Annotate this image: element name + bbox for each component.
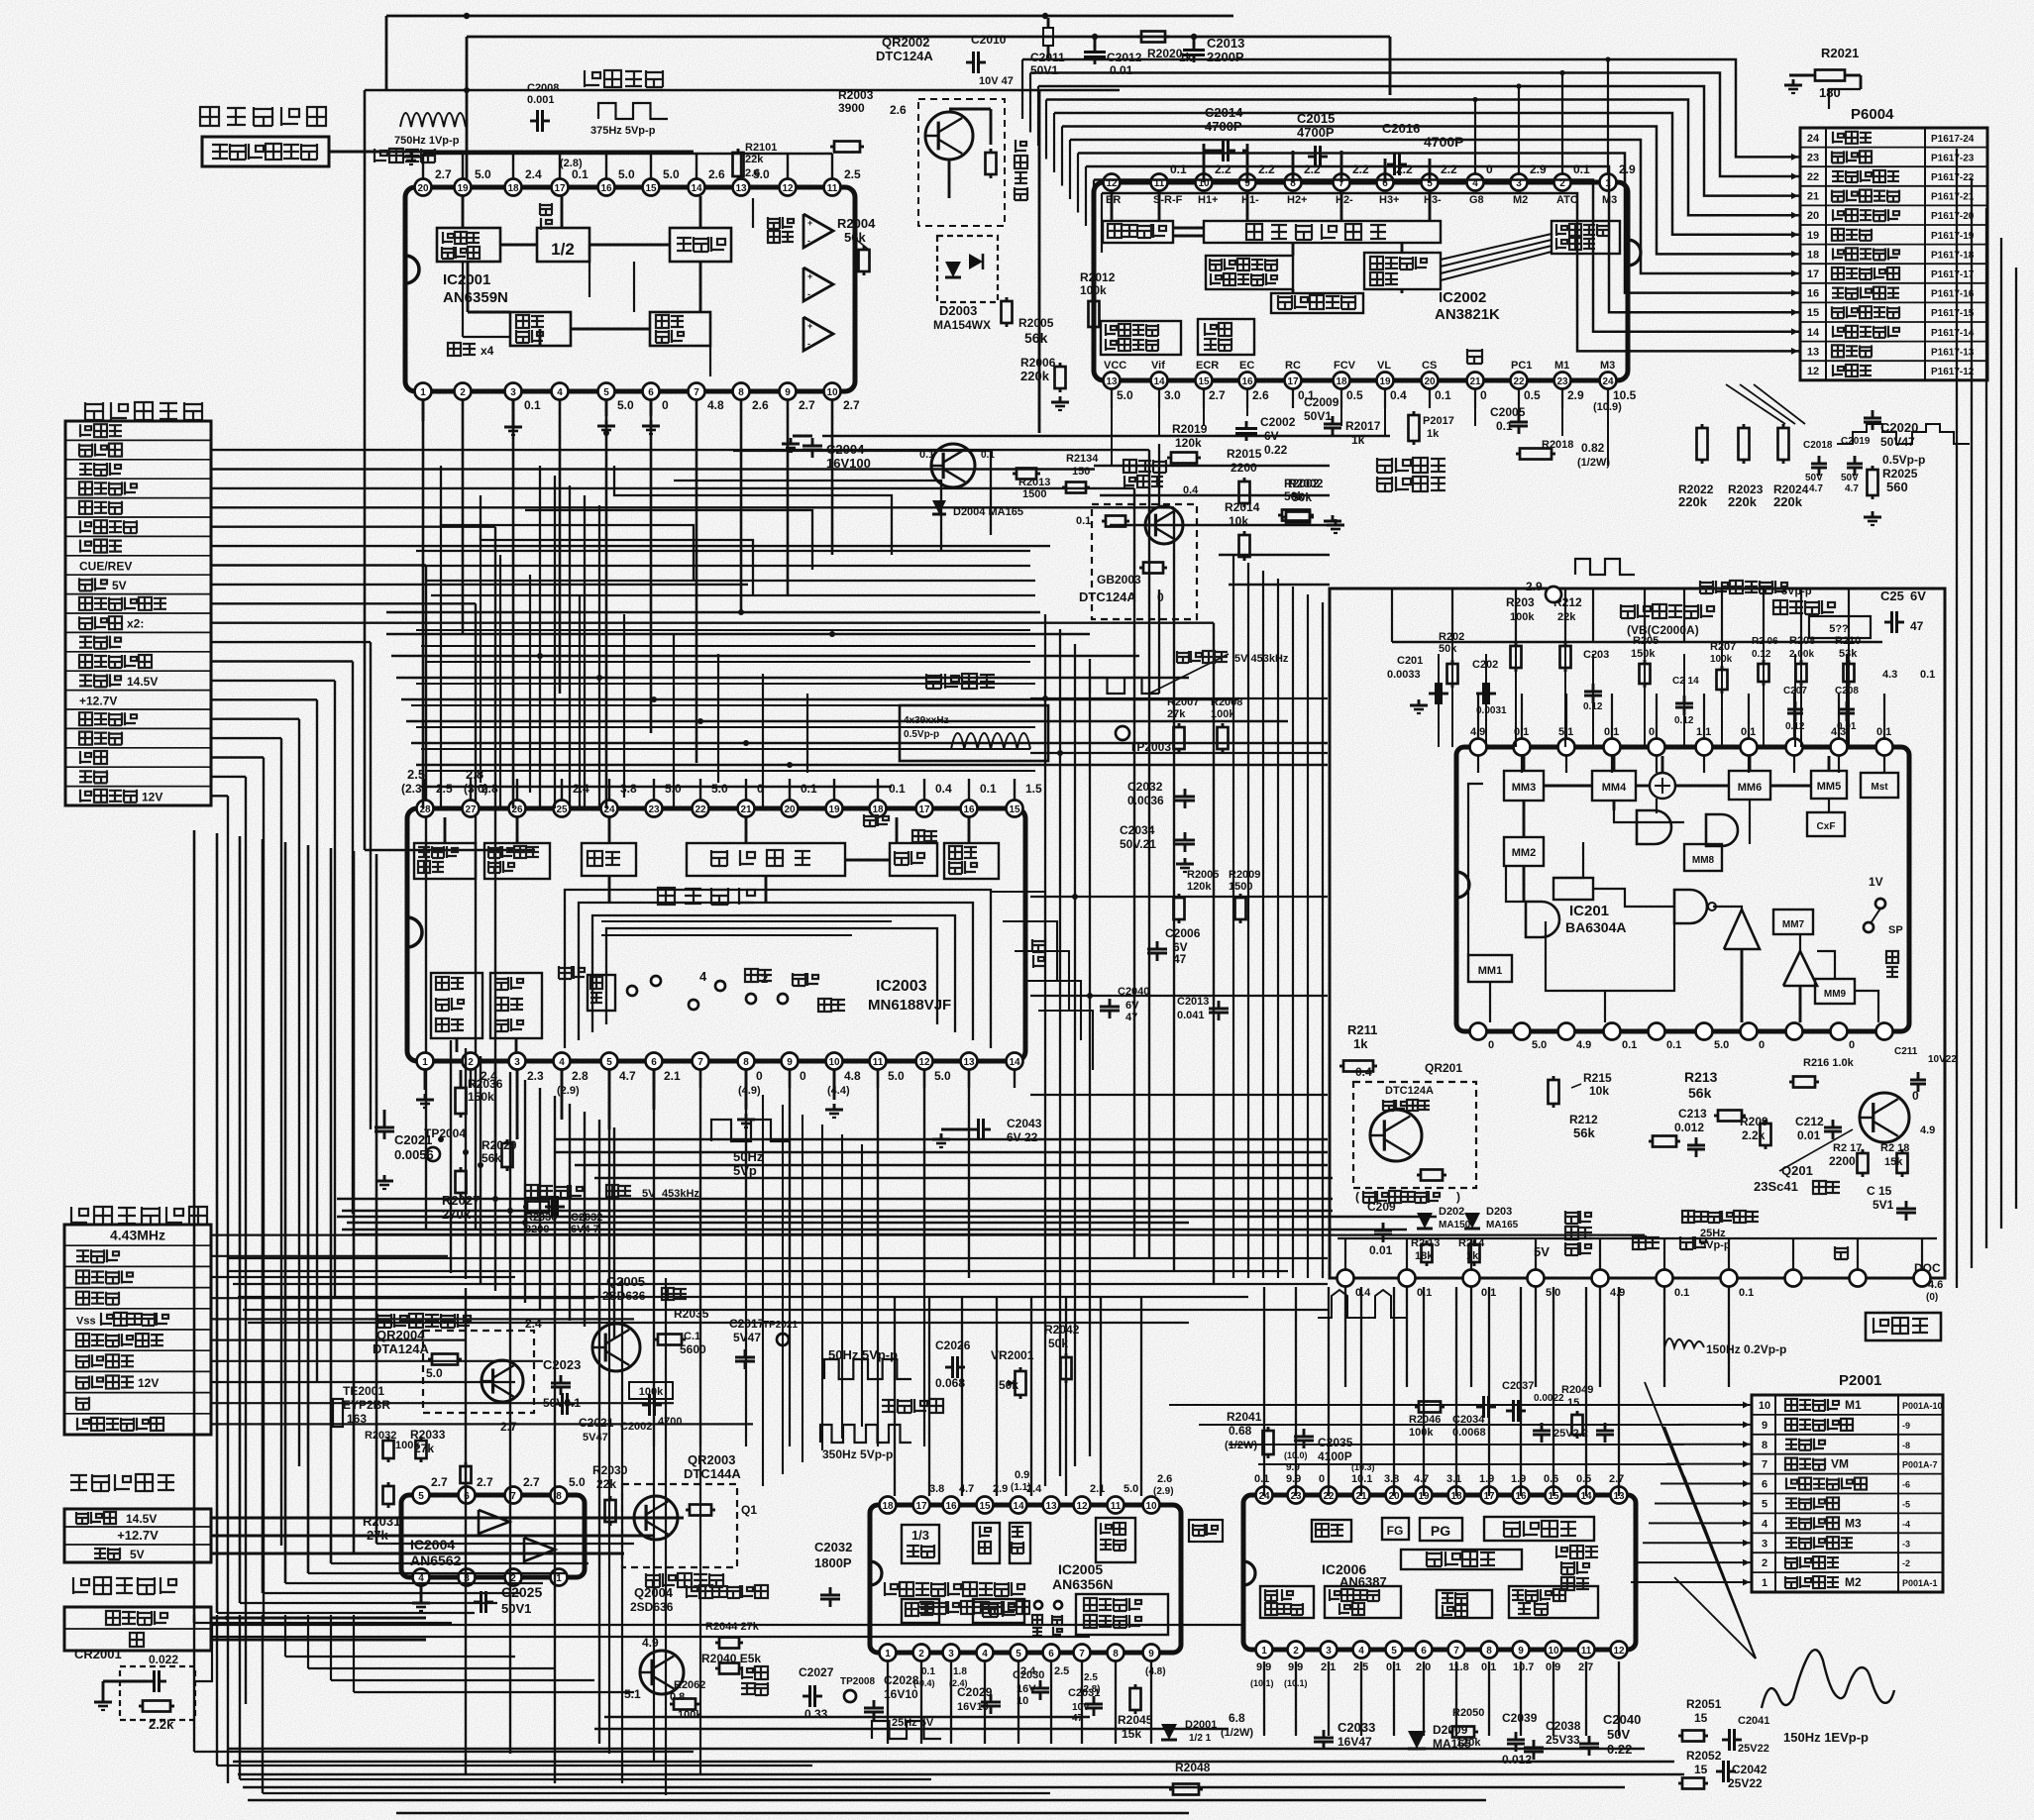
svg-text:P6004: P6004	[1851, 106, 1894, 123]
svg-text:350Hz 5Vp-p: 350Hz 5Vp-p	[822, 1447, 893, 1461]
wire vertical bundle left-bottom	[450, 1040, 452, 1273]
wires IC2002 bottom pins down	[1111, 389, 1113, 466]
IC2001 top pins	[415, 179, 432, 196]
svg-text:50V: 50V	[1805, 473, 1823, 483]
svg-text:0.0022: 0.0022	[1534, 1393, 1564, 1404]
svg-text:5V: 5V	[130, 1548, 145, 1561]
svg-text:100k: 100k	[1080, 283, 1107, 297]
svg-text:15: 15	[1567, 1397, 1579, 1409]
IC2003 playback label	[559, 966, 585, 979]
svg-text:4.7: 4.7	[1845, 483, 1859, 494]
IC201 NAND gate	[1674, 890, 1707, 923]
svg-text:1800P: 1800P	[814, 1555, 852, 1570]
svg-text:13: 13	[1045, 1501, 1057, 1512]
svg-text:3.8: 3.8	[1384, 1473, 1399, 1485]
svg-text:-2: -2	[1902, 1558, 1910, 1568]
svg-text:2: 2	[468, 1057, 474, 1068]
svg-text:QR2003: QR2003	[688, 1452, 735, 1467]
svg-text:M1: M1	[1554, 360, 1569, 372]
svg-text:2.7: 2.7	[843, 398, 860, 412]
wires below IC2003	[424, 1070, 427, 1090]
label field lock pulse	[1682, 1211, 1759, 1223]
svg-text:R2031: R2031	[363, 1514, 400, 1529]
svg-text:R208: R208	[1789, 635, 1815, 647]
label playback 5V 453kHz	[1177, 651, 1228, 663]
svg-text:R2049: R2049	[1561, 1384, 1593, 1396]
label: to system control (top)	[200, 107, 326, 127]
single stable label left of IC2006	[1189, 1520, 1223, 1542]
svg-text:4.3: 4.3	[1882, 669, 1897, 681]
label: to power supply	[70, 1474, 174, 1491]
svg-text:DTC124A: DTC124A	[876, 49, 933, 63]
svg-text:P1617-17: P1617-17	[1931, 269, 1975, 280]
svg-text:220k: 220k	[1773, 494, 1803, 509]
transistor Q2001 mid	[931, 444, 975, 487]
svg-text:2.5: 2.5	[844, 167, 861, 181]
svg-text:(2.9): (2.9)	[1153, 1486, 1174, 1497]
svg-text:4700: 4700	[658, 1416, 682, 1428]
svg-text:R2045: R2045	[1118, 1713, 1153, 1727]
IC2005 inner monostable	[973, 1523, 1000, 1563]
field lock box	[1866, 1313, 1941, 1340]
IC2002 bottom pins	[1104, 373, 1121, 389]
svg-text:C2 14: C2 14	[1672, 676, 1699, 687]
svg-text:0.5Vp-p: 0.5Vp-p	[1882, 453, 1925, 467]
svg-text:150k: 150k	[1631, 648, 1656, 660]
svg-text:21: 21	[740, 804, 752, 815]
svg-text:M2: M2	[1845, 1575, 1862, 1589]
outer box right servo section	[1330, 589, 1945, 1278]
svg-text:P001A-7: P001A-7	[1902, 1460, 1938, 1470]
wire verticals right of IC2003	[1044, 614, 1046, 1486]
svg-text:50V1: 50V1	[1304, 409, 1332, 423]
svg-text:P001A-1: P001A-1	[1902, 1578, 1938, 1588]
svg-text:2.1: 2.1	[664, 1069, 681, 1083]
svg-text:2.1: 2.1	[1090, 1483, 1105, 1495]
svg-text:C2037: C2037	[1502, 1380, 1534, 1392]
svg-text:+: +	[807, 271, 812, 281]
svg-text:150Hz 0.2Vp-p: 150Hz 0.2Vp-p	[1706, 1342, 1786, 1356]
svg-text:4.9: 4.9	[1576, 1039, 1591, 1051]
svg-text:0.1: 0.1	[1435, 388, 1451, 402]
svg-text:9.9: 9.9	[1286, 1473, 1301, 1485]
wire outer rail y91	[365, 89, 1120, 92]
arrow fan to waveform	[1645, 1382, 1756, 1659]
svg-text:6V: 6V	[1910, 589, 1926, 603]
label mute high on	[646, 1573, 723, 1587]
waveform 25Hz pulses near bottom	[1318, 1290, 1407, 1318]
svg-text:15: 15	[1694, 1711, 1708, 1725]
svg-text:21: 21	[1807, 191, 1819, 203]
svg-text:D2003: D2003	[939, 303, 977, 318]
waveform 50Hz 5Vp below IC2003	[711, 1120, 791, 1141]
svg-text:5V1: 5V1	[1873, 1198, 1894, 1212]
svg-text:0.1: 0.1	[1076, 515, 1091, 527]
svg-text:DTC124A: DTC124A	[1079, 589, 1136, 604]
IC2002 inner block six drivers	[1552, 221, 1620, 254]
svg-text:D203: D203	[1486, 1206, 1512, 1218]
wire central parallel horizontals	[416, 550, 1030, 552]
svg-text:ER: ER	[1106, 194, 1121, 206]
svg-text:0.4: 0.4	[1355, 1287, 1371, 1299]
svg-text:DTC144A: DTC144A	[684, 1466, 741, 1481]
svg-text:Q201: Q201	[1781, 1163, 1813, 1178]
label phase delay	[525, 1185, 583, 1198]
svg-text:2.2k: 2.2k	[1742, 1128, 1766, 1142]
label master lead vertical	[540, 203, 552, 215]
svg-text:2.2: 2.2	[1352, 162, 1369, 176]
svg-text:7: 7	[1762, 1459, 1767, 1471]
svg-text:P001A-10: P001A-10	[1902, 1401, 1943, 1411]
svg-text:12: 12	[1807, 366, 1819, 377]
svg-text:C2010: C2010	[971, 33, 1007, 47]
svg-text:5.0: 5.0	[1124, 1483, 1138, 1495]
svg-text:0.4: 0.4	[935, 782, 952, 796]
svg-text:-6: -6	[1902, 1480, 1910, 1490]
svg-text:R2036: R2036	[468, 1077, 503, 1091]
svg-text:C2033: C2033	[1338, 1720, 1375, 1735]
label normal playback (top)	[585, 70, 663, 87]
svg-text:MM5: MM5	[1817, 781, 1841, 793]
svg-text:0.1: 0.1	[524, 398, 541, 412]
svg-text:2.2: 2.2	[1258, 162, 1275, 176]
svg-text:0.1: 0.1	[1622, 1039, 1637, 1051]
label unload2 high	[1124, 460, 1166, 473]
svg-text:EC: EC	[1239, 360, 1254, 372]
IC2002 inner block logic	[1103, 221, 1173, 243]
label normal playback small	[375, 149, 435, 162]
svg-text:P1617-12: P1617-12	[1931, 367, 1975, 377]
svg-text:5V47: 5V47	[583, 1432, 608, 1444]
svg-text:MM9: MM9	[1824, 989, 1847, 1000]
wire deep verticals left-bottom	[465, 1288, 467, 1773]
diodes D202 D203	[1417, 1213, 1433, 1229]
svg-text:11: 11	[1111, 1501, 1122, 1512]
wire IC2006 bottom to bottom rail	[1263, 1661, 1265, 1736]
resistor R2020 1k	[1137, 36, 1141, 39]
svg-text:MA165: MA165	[1486, 1220, 1519, 1231]
svg-text:56k: 56k	[1573, 1125, 1595, 1140]
svg-text:M2: M2	[1513, 194, 1528, 206]
IC2003 bottom pins	[417, 1053, 434, 1070]
svg-text:R207: R207	[1710, 641, 1736, 653]
waveform 25Hz 5V	[872, 1721, 941, 1739]
svg-text:13: 13	[735, 183, 747, 194]
svg-text:13: 13	[963, 1057, 975, 1068]
svg-text:R2014: R2014	[1225, 500, 1260, 514]
svg-text:14: 14	[1153, 376, 1165, 387]
svg-text:): )	[1456, 1190, 1460, 1204]
svg-text:0.1: 0.1	[801, 782, 817, 796]
svg-text:0: 0	[1488, 1039, 1494, 1051]
svg-text:21: 21	[1469, 376, 1481, 387]
svg-text:R212: R212	[1569, 1113, 1598, 1126]
IC2002 inner block hall power	[1101, 321, 1181, 355]
svg-text:50V: 50V	[1841, 473, 1859, 483]
svg-text:25V22: 25V22	[1728, 1776, 1763, 1790]
svg-text:D2004 MA165: D2004 MA165	[953, 506, 1023, 518]
svg-text:P1617-21: P1617-21	[1931, 192, 1975, 203]
IC2006 inner monostable	[1312, 1520, 1351, 1542]
label drum rotate high off	[377, 1314, 471, 1328]
label head switch pulse generator	[919, 1601, 1029, 1614]
svg-text:P2001: P2001	[1839, 1372, 1881, 1389]
svg-text:560: 560	[1886, 480, 1908, 494]
IC201 internal pin drop wires	[1477, 756, 1479, 773]
wire far-left bundle extensions	[193, 1615, 195, 1752]
svg-text:11.8: 11.8	[1448, 1661, 1469, 1673]
svg-text:6V: 6V	[1125, 1000, 1139, 1012]
svg-text:4100P: 4100P	[1318, 1449, 1352, 1463]
svg-text:1/3: 1/3	[911, 1528, 929, 1543]
svg-text:R2052: R2052	[1686, 1749, 1722, 1763]
IC201 MM9 box	[1815, 979, 1855, 1004]
table: power supply	[64, 1509, 211, 1562]
svg-text:5V47: 5V47	[733, 1331, 761, 1344]
label search preset	[742, 1666, 768, 1679]
svg-text:C2018: C2018	[1803, 440, 1833, 451]
wire IC2005 bottom to bottom rail	[887, 1661, 889, 1744]
svg-text:PC1: PC1	[1511, 360, 1532, 372]
table: luminance board	[64, 1225, 211, 1435]
outer box right edge	[1038, 90, 1041, 433]
svg-text:0: 0	[1649, 726, 1655, 738]
svg-text:C2035: C2035	[1318, 1436, 1353, 1449]
svg-text:0.001: 0.001	[527, 94, 555, 106]
svg-text:17: 17	[554, 183, 566, 194]
svg-text:TP2021: TP2021	[763, 1320, 798, 1331]
svg-text:Mst: Mst	[1871, 782, 1888, 793]
svg-text:G8: G8	[1469, 194, 1484, 206]
IC201 AND gate 2	[1706, 814, 1738, 846]
svg-text:4.6: 4.6	[1928, 1279, 1943, 1291]
wire outer rail bottom	[365, 849, 535, 852]
svg-text:0: 0	[1319, 1473, 1325, 1485]
svg-text:x4: x4	[481, 344, 494, 358]
svg-text:0.0036: 0.0036	[1127, 794, 1164, 807]
svg-text:C2038: C2038	[1546, 1719, 1581, 1733]
svg-text:R2005: R2005	[1018, 316, 1054, 330]
wire IC2003 bottom pins to lower bus	[608, 1070, 610, 1278]
svg-text:0.1: 0.1	[1920, 669, 1935, 681]
IC2001 bottom pins	[415, 383, 432, 400]
IC2003 notch	[407, 917, 422, 947]
svg-text:3.0: 3.0	[1164, 388, 1181, 402]
IC2003 inner block divider 1	[582, 843, 636, 876]
svg-text:2.2: 2.2	[1215, 162, 1231, 176]
svg-text:5.0: 5.0	[888, 1069, 905, 1083]
svg-text:0.012: 0.012	[1674, 1121, 1704, 1134]
svg-text:56k: 56k	[844, 230, 866, 245]
svg-text:16: 16	[963, 804, 975, 815]
IC2001 internal extra wires	[462, 262, 464, 337]
svg-text:12: 12	[1613, 1646, 1625, 1657]
pin30 connection top	[1546, 587, 1561, 602]
svg-text:0.1: 0.1	[1739, 1287, 1754, 1299]
svg-text:S-R-F: S-R-F	[1153, 194, 1183, 206]
svg-text:P2017: P2017	[1423, 415, 1454, 427]
svg-text:18: 18	[882, 1501, 894, 1512]
label ground bottom right	[1835, 1246, 1848, 1259]
wire top rail vertical left	[466, 37, 469, 186]
wire verticals to IC2005	[894, 1298, 896, 1496]
svg-text:2.9: 2.9	[1526, 580, 1543, 593]
svg-text:20: 20	[784, 804, 796, 815]
svg-text:1.9: 1.9	[1511, 1473, 1526, 1485]
svg-text:25: 25	[556, 804, 568, 815]
svg-text:MM2: MM2	[1512, 847, 1536, 859]
IC201 notch	[1456, 872, 1469, 898]
IC2003 inner block monostable	[588, 975, 615, 1011]
svg-text:R2025: R2025	[1882, 467, 1918, 481]
wire right-edge verticals	[1956, 149, 1958, 1288]
svg-text:4700P: 4700P	[1424, 134, 1463, 150]
IC2001 AN6359N block outline	[405, 187, 855, 391]
svg-text:14: 14	[1009, 1057, 1020, 1068]
IC2002 bottom stubs	[1111, 389, 1113, 408]
svg-text:C2009: C2009	[1304, 395, 1339, 409]
svg-text:0.0033: 0.0033	[1387, 669, 1421, 681]
svg-text:5.0: 5.0	[475, 167, 491, 181]
svg-text:AN6387: AN6387	[1339, 1574, 1387, 1589]
svg-text:C25: C25	[1880, 589, 1904, 603]
svg-text:IC2002: IC2002	[1439, 289, 1486, 306]
svg-text:MA154WX: MA154WX	[933, 318, 991, 332]
wire IC2002 pins up	[1607, 59, 1609, 173]
svg-text:2.2: 2.2	[1441, 162, 1457, 176]
svg-text:1.9: 1.9	[1479, 1473, 1494, 1485]
switch record label mid	[912, 830, 937, 842]
svg-text:0.0031: 0.0031	[1476, 705, 1507, 716]
IC2006 notch	[1243, 1561, 1255, 1585]
svg-text:(-0.4): (-0.4)	[913, 1678, 935, 1688]
svg-text:7: 7	[697, 1057, 703, 1068]
test point TP2008	[844, 1690, 856, 1702]
svg-text:R2003: R2003	[838, 88, 874, 102]
svg-text:5600: 5600	[680, 1342, 706, 1356]
IC2001 inner block: start select	[650, 312, 710, 346]
svg-text:14: 14	[1013, 1501, 1024, 1512]
svg-text:0.82: 0.82	[1581, 441, 1605, 455]
svg-text:12V: 12V	[138, 1376, 159, 1390]
svg-text:R2134: R2134	[1066, 453, 1099, 465]
svg-text:R2005: R2005	[1187, 869, 1219, 881]
svg-text:C203: C203	[1583, 649, 1609, 661]
svg-text:5: 5	[1762, 1498, 1767, 1510]
svg-text:C 15: C 15	[1867, 1184, 1892, 1198]
svg-text:0.0056: 0.0056	[394, 1147, 434, 1162]
svg-text:22: 22	[695, 804, 706, 815]
right box top hatch leads	[1451, 642, 1453, 747]
svg-text:10: 10	[1548, 1646, 1559, 1657]
svg-text:1: 1	[1261, 1646, 1267, 1657]
wire GB2003 connections	[1158, 589, 1160, 694]
label slow field lock pulse top	[1700, 581, 1787, 593]
IC2005 head switch pulse gen label	[885, 1582, 1024, 1596]
IC2002 internal wires	[1111, 191, 1114, 221]
IC2005 record/play switch labels	[1034, 1601, 1042, 1609]
svg-text:15: 15	[645, 183, 657, 194]
right box bottom pin stubs	[1344, 1238, 1346, 1270]
svg-text:+: +	[807, 218, 812, 228]
svg-text:18: 18	[1336, 376, 1347, 387]
svg-text:120k: 120k	[1456, 1737, 1481, 1749]
svg-text:19: 19	[457, 183, 469, 194]
svg-text:50k: 50k	[1292, 490, 1312, 504]
svg-text:C.1: C.1	[684, 1331, 700, 1342]
svg-text:1: 1	[885, 1649, 891, 1659]
label master x4	[448, 343, 476, 356]
svg-text:(3.0): (3.0)	[464, 782, 488, 796]
svg-text:2.9: 2.9	[1619, 162, 1636, 176]
IC201 internal wires	[1523, 756, 1526, 771]
svg-text:11: 11	[873, 1057, 884, 1068]
svg-text:0.012: 0.012	[1502, 1753, 1532, 1766]
IC2005 inner speed mono	[1096, 1518, 1135, 1562]
svg-text:P1617-18: P1617-18	[1931, 250, 1975, 261]
IC2003 inner block drum speed control	[414, 843, 476, 879]
svg-text:0.68: 0.68	[1229, 1424, 1252, 1438]
IC2005 bottom pins	[880, 1645, 897, 1661]
svg-text:16: 16	[945, 1501, 957, 1512]
label noise remove circuit	[1621, 604, 1714, 618]
svg-text:R2021: R2021	[1821, 46, 1859, 60]
IC201 small box	[1553, 878, 1593, 900]
svg-text:56k: 56k	[1688, 1085, 1712, 1101]
svg-text:PG: PG	[1431, 1523, 1450, 1539]
svg-text:EYP2BR: EYP2BR	[343, 1398, 390, 1412]
svg-text:C213: C213	[1678, 1107, 1707, 1121]
svg-text:R203: R203	[1506, 595, 1535, 609]
svg-text:2.2k: 2.2k	[149, 1717, 174, 1732]
svg-text:120k: 120k	[1175, 436, 1202, 450]
IC2003 inner block master speed ctl	[431, 973, 482, 1038]
svg-text:5: 5	[1016, 1649, 1021, 1659]
IC201 BA6304A inner block outline	[1456, 747, 1909, 1031]
svg-text:14: 14	[1807, 327, 1820, 339]
svg-text:1.8: 1.8	[953, 1666, 967, 1677]
svg-text:4.7: 4.7	[1809, 483, 1823, 494]
IC2003 top pins	[417, 801, 434, 817]
svg-text:6.8: 6.8	[1229, 1711, 1245, 1725]
svg-text:CR2001: CR2001	[74, 1647, 122, 1661]
wire long horizontals y1228	[337, 1216, 1437, 1218]
transistor Q202	[1860, 1093, 1909, 1142]
svg-text:TP2008: TP2008	[840, 1676, 875, 1687]
svg-text:1V: 1V	[1869, 875, 1883, 889]
svg-text:P1617-13: P1617-13	[1931, 347, 1975, 358]
svg-text:6: 6	[651, 1057, 657, 1068]
waveforms 50Hz 350Hz mid	[824, 1359, 911, 1379]
svg-text:1: 1	[1762, 1577, 1767, 1589]
label: to audio section	[73, 1577, 176, 1594]
svg-text:12: 12	[782, 183, 794, 194]
label normal playback mid	[882, 1399, 943, 1413]
transistor GB2003 DTC124A dashed	[1092, 504, 1197, 619]
svg-text:R2012: R2012	[1080, 270, 1116, 284]
svg-text:C2002: C2002	[1260, 415, 1296, 429]
IC201 top pins	[1470, 739, 1487, 756]
svg-text:4: 4	[1358, 1646, 1364, 1657]
IC2002 inner block ripple remove	[1271, 293, 1363, 313]
svg-text:5??: 5??	[1829, 623, 1849, 635]
label timing signal pointer	[1149, 654, 1229, 694]
capacitor C2042 6V22	[971, 1128, 979, 1131]
svg-text:C2039: C2039	[1502, 1711, 1538, 1725]
svg-text:9: 9	[785, 387, 791, 398]
svg-text:R213: R213	[1684, 1069, 1718, 1085]
svg-text:C212: C212	[1795, 1115, 1824, 1128]
